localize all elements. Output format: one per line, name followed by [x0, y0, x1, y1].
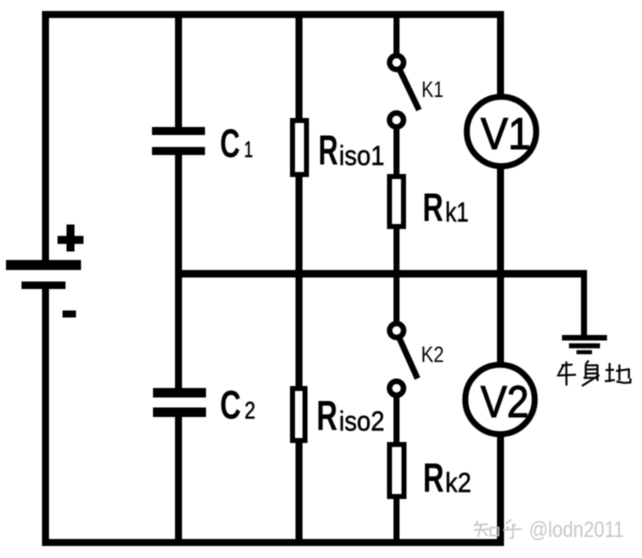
wire K2 branch from middle bus	[394, 274, 400, 322]
wire C branch upper	[175, 14, 182, 130]
svg-text:1: 1	[244, 137, 253, 162]
wire left vertical (battery - to bottom bus)	[42, 287, 49, 546]
switch K2 top contact	[390, 324, 404, 338]
svg-text:K2: K2	[421, 342, 444, 367]
wire Rk2 to bottom bus	[394, 496, 400, 546]
wire V2 to bottom bus	[497, 434, 504, 546]
wire K2 contact to Rk2	[394, 395, 400, 445]
label chassis ground 车身地	[557, 361, 631, 387]
wire V branch upper (top bus to V1)	[497, 14, 504, 97]
chassis ground bar 3	[577, 350, 593, 354]
svg-text:iso1: iso1	[339, 140, 385, 171]
capacitor C1 top plate	[152, 127, 205, 135]
label V2	[481, 378, 529, 427]
wire Riso branch upper	[296, 14, 303, 122]
wire C branch lower (C2 to bottom bus)	[175, 413, 182, 546]
wire Rk1 to middle bus	[394, 226, 400, 274]
switch K1 bottom contact	[390, 113, 404, 127]
resistor Rk2	[390, 445, 405, 497]
svg-text:R: R	[318, 127, 338, 174]
switch K1 blade	[400, 71, 419, 111]
wire Riso branch middle	[296, 172, 303, 390]
label V1	[481, 110, 531, 159]
wire K1 contact to Rk1	[394, 128, 400, 178]
svg-text:V1: V1	[481, 110, 531, 159]
svg-text:@lodn2011: @lodn2011	[529, 517, 624, 542]
label Riso2	[317, 392, 385, 439]
resistor Riso1	[293, 121, 307, 175]
voltmeter V2	[465, 365, 534, 434]
svg-text:R: R	[423, 455, 444, 501]
svg-text:V2: V2	[481, 378, 529, 427]
label Riso1	[318, 127, 384, 174]
svg-text:k2: k2	[445, 467, 471, 498]
watermark 知乎 @lodn2011	[474, 517, 624, 542]
capacitor C2 top plate	[153, 388, 206, 398]
svg-text:R: R	[317, 392, 338, 439]
svg-text:iso2: iso2	[339, 406, 385, 437]
wire top bus	[42, 11, 504, 18]
wire middle bus (chassis reference)	[175, 270, 587, 278]
wire K1 branch from top bus	[394, 14, 400, 54]
switch K1 top contact	[390, 56, 404, 70]
battery negative plate	[22, 282, 66, 290]
wire V1 to V2 (through middle bus)	[497, 166, 504, 365]
svg-text:C: C	[220, 122, 240, 166]
capacitor C1 bottom plate	[152, 147, 205, 155]
resistor Riso2	[293, 389, 306, 441]
svg-text:R: R	[423, 186, 444, 230]
capacitor C2 bottom plate	[153, 408, 206, 418]
label C2	[220, 384, 256, 428]
wire left vertical (top bus to battery +)	[42, 11, 49, 263]
switch K2 blade	[400, 339, 418, 379]
label K1	[422, 77, 444, 102]
wire bottom bus	[42, 539, 504, 546]
wire Riso branch lower	[296, 438, 303, 546]
voltmeter V1	[467, 97, 536, 166]
svg-text:C: C	[220, 384, 241, 428]
wire C branch middle (C1 through mid bus to C2)	[175, 151, 182, 391]
resistor Rk1	[390, 177, 404, 227]
wire ground stub from middle bus	[581, 274, 587, 336]
chassis ground bar 1	[562, 335, 607, 341]
svg-text:2: 2	[245, 398, 256, 425]
battery - label	[63, 311, 77, 318]
label C1	[220, 122, 253, 166]
battery positive plate	[6, 260, 81, 270]
switch K2 bottom contact	[390, 381, 404, 395]
svg-text:k1: k1	[445, 196, 468, 227]
battery + label	[58, 225, 84, 252]
label Rk2	[423, 455, 471, 501]
label K2	[421, 342, 444, 367]
chassis ground bar 2	[569, 343, 600, 348]
svg-text:K1: K1	[422, 77, 444, 102]
label Rk1	[423, 186, 469, 230]
